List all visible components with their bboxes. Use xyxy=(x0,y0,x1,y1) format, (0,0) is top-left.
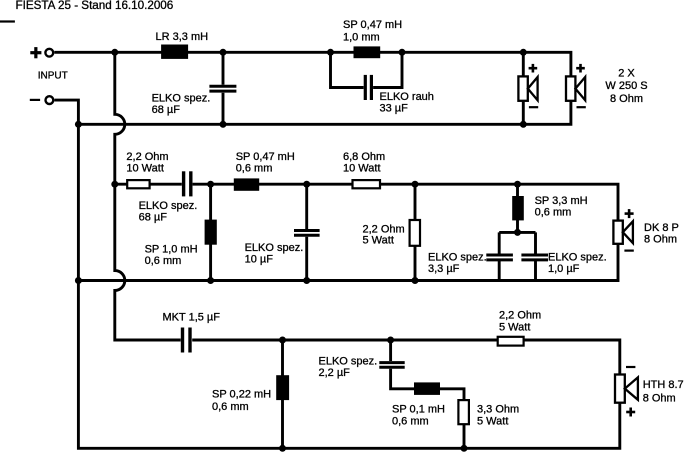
svg-text:8 Ohm: 8 Ohm xyxy=(644,234,677,246)
node: tweeter wire junctions xyxy=(279,337,394,344)
node: bottom rail junctions xyxy=(279,445,468,452)
node: top wire junctions xyxy=(111,49,527,56)
wire: leg of 68 uF elko from top wire to return rail xyxy=(222,52,225,124)
svg-text:68 µF: 68 µF xyxy=(152,104,181,116)
svg-text:ELKO spez.: ELKO spez. xyxy=(548,251,607,263)
svg-text:ELKO spez.: ELKO spez. xyxy=(152,92,211,104)
node: midrange return rail junctions xyxy=(75,277,419,284)
svg-text:10 Watt: 10 Watt xyxy=(343,163,381,175)
svg-text:1,0 mm: 1,0 mm xyxy=(343,32,380,44)
label 6,8 Ohm 10 Watt xyxy=(343,151,385,175)
label ELKO spez. 10 uF xyxy=(245,242,304,266)
svg-text:2,2 µF: 2,2 µF xyxy=(319,367,351,379)
capacitor ELKO rauh 33 uF xyxy=(365,75,371,100)
svg-text:HTH 8.7: HTH 8.7 xyxy=(643,379,684,391)
svg-text:FIESTA 25 - Stand 16.10.2006: FIESTA 25 - Stand 16.10.2006 xyxy=(16,0,174,12)
minus mark HTH xyxy=(626,366,635,368)
label SP 0,47 mH 1,0 mm xyxy=(343,19,402,44)
capacitor ELKO spez. 3,3 uF xyxy=(486,255,513,260)
plus mark DK 8 P xyxy=(625,209,634,218)
speaker W 250 S #1 xyxy=(518,76,537,100)
svg-text:ELKO spez.: ELKO spez. xyxy=(428,251,487,263)
label DK 8 P 8 Ohm xyxy=(644,222,679,246)
wire: legs of first woofer xyxy=(522,52,525,124)
label 2,2 Ohm 5 Watt midrange xyxy=(363,223,405,246)
wire: leg of SP 3,3 mH branch xyxy=(516,184,519,232)
svg-text:ELKO rauh: ELKO rauh xyxy=(380,91,434,103)
svg-text:5 Watt: 5 Watt xyxy=(477,415,508,427)
label 3,3 Ohm 5 Watt xyxy=(477,403,519,427)
label ELKO spez. 3,3 uF xyxy=(428,251,487,275)
label ELKO spez. 1,0 uF xyxy=(548,251,607,275)
label ELKO spez. 2,2 uF xyxy=(319,355,378,379)
svg-text:SP 0,22 mH: SP 0,22 mH xyxy=(212,388,271,400)
svg-text:6,8 Ohm: 6,8 Ohm xyxy=(343,151,385,163)
label SP 0,22 mH 0,6 mm xyxy=(212,388,271,413)
label ELKO rauh 33 uF xyxy=(380,91,434,115)
capacitor ELKO spez. 68 uF (midrange series) xyxy=(184,171,191,196)
svg-text:0,6 mm: 0,6 mm xyxy=(392,415,429,427)
svg-text:INPUT: INPUT xyxy=(38,71,68,82)
inductor SP 0,47 mH 1,0 mm xyxy=(354,46,381,58)
svg-text:SP 0,1 mH: SP 0,1 mH xyxy=(392,403,445,415)
svg-text:0,6 mm: 0,6 mm xyxy=(236,163,273,175)
speaker DK 8 P xyxy=(613,221,633,244)
svg-text:ELKO spez.: ELKO spez. xyxy=(319,355,378,367)
wire: leg of 2,2 Ohm 5 Watt shunt (midrange) xyxy=(414,184,417,280)
label SP 0,47 mH 0,6 mm xyxy=(236,151,295,175)
resistor 2,2 Ohm 5 Watt (midrange shunt) xyxy=(410,220,420,246)
svg-text:33 µF: 33 µF xyxy=(380,103,409,115)
svg-text:2 X: 2 X xyxy=(618,67,635,79)
margin tick mark xyxy=(0,20,15,22)
svg-text:SP 0,47 mH: SP 0,47 mH xyxy=(343,19,402,31)
resistor 2,2 Ohm 10 Watt xyxy=(127,180,149,188)
label SP 3,3 mH 0,6 mm xyxy=(535,195,588,218)
wire: minus feed down left side and bottom rail to HTH xyxy=(55,100,620,448)
capacitor ELKO spez. 68 uF (woofer branch) xyxy=(209,86,236,91)
svg-text:0,6 mm: 0,6 mm xyxy=(535,206,572,218)
svg-text:ELKO spez.: ELKO spez. xyxy=(245,242,304,254)
svg-text:0,6 mm: 0,6 mm xyxy=(212,401,249,413)
node: woofer return rail junctions xyxy=(75,121,527,128)
svg-text:10 µF: 10 µF xyxy=(245,254,274,266)
svg-text:1,0 µF: 1,0 µF xyxy=(548,263,580,275)
inductor SP 1,0 mH 0,6 mm xyxy=(205,220,217,245)
wire: ELKO 2,2 uF and RL chain to bottom rail xyxy=(391,340,464,448)
wire: leg of ELKO 10 uF shunt xyxy=(305,184,308,280)
node: SP 3,3 mH to elko pair junction xyxy=(514,229,521,236)
svg-text:3,3 µF: 3,3 µF xyxy=(428,263,460,275)
capacitor ELKO spez. 1,0 uF xyxy=(521,255,548,260)
label HTH 8.7 8 Ohm xyxy=(643,379,684,404)
label SP 1,0 mH 0,6 mm xyxy=(145,244,198,268)
plus mark speaker 2 xyxy=(576,64,585,73)
speaker HTH 8.7 xyxy=(615,375,638,403)
speaker W 250 S #2 xyxy=(566,76,585,100)
svg-text:2,2 Ohm: 2,2 Ohm xyxy=(126,151,168,163)
wire: leg of SP 0,22 mH shunt xyxy=(281,340,284,448)
svg-text:ELKO spez.: ELKO spez. xyxy=(139,200,198,212)
wire: woofer section return rail xyxy=(78,101,571,125)
svg-text:LR 3,3 mH: LR 3,3 mH xyxy=(156,31,209,43)
wire: parallel elko pair frame xyxy=(499,232,535,280)
svg-text:8 Ohm: 8 Ohm xyxy=(610,93,643,105)
plus mark speaker 1 xyxy=(529,64,538,73)
capacitor MKT 1,5 uF xyxy=(183,328,191,353)
svg-text:SP 0,47 mH: SP 0,47 mH xyxy=(236,151,295,163)
resistor 6,8 Ohm 10 Watt xyxy=(353,180,381,188)
svg-text:DK 8 P: DK 8 P xyxy=(644,222,679,234)
wire: midrange return rail xyxy=(78,244,618,281)
svg-text:MKT 1,5 µF: MKT 1,5 µF xyxy=(163,312,221,324)
svg-text:3,3 Ohm: 3,3 Ohm xyxy=(477,403,519,415)
svg-text:8 Ohm: 8 Ohm xyxy=(643,392,676,404)
inductor LR 3,3 mH xyxy=(161,45,188,59)
label 2 X W 250 S 8 Ohm xyxy=(605,67,647,104)
input plus terminal xyxy=(30,47,53,58)
wire: leg of SP 1,0 mH shunt xyxy=(209,184,212,280)
svg-text:2,2 Ohm: 2,2 Ohm xyxy=(499,309,541,321)
svg-text:5 Watt: 5 Watt xyxy=(499,322,530,334)
svg-text:0,6 mm: 0,6 mm xyxy=(145,255,182,267)
capacitor ELKO spez. 2,2 uF xyxy=(379,363,404,368)
inductor SP 3,3 mH 0,6 mm xyxy=(512,196,524,220)
label 2,2 Ohm 5 Watt tweeter xyxy=(499,309,541,333)
svg-text:SP 3,3 mH: SP 3,3 mH xyxy=(535,195,588,207)
wire: plus feed vertical with two crossover hops, then tweeter branch wire to HTH xyxy=(115,52,620,374)
plus mark HTH xyxy=(626,408,635,417)
svg-text:10 Watt: 10 Watt xyxy=(126,163,163,175)
label ELKO spez. 68 uF midrange xyxy=(139,200,198,223)
svg-text:W 250 S: W 250 S xyxy=(605,80,647,92)
wire: parallel LC loop legs (woofer branch) xyxy=(331,52,403,87)
minus mark speaker 1 xyxy=(529,106,538,108)
input minus terminal xyxy=(30,96,54,104)
minus mark speaker 2 xyxy=(577,106,586,108)
inductor SP 0,22 mH 0,6 mm xyxy=(276,375,289,400)
svg-text:5 Watt: 5 Watt xyxy=(363,234,394,246)
capacitor ELKO spez. 10 uF xyxy=(294,231,320,236)
label SP 0,1 mH 0,6 mm xyxy=(392,403,445,427)
svg-text:68 µF: 68 µF xyxy=(139,211,168,223)
label ELKO spez. 68 uF xyxy=(152,92,211,116)
node: midrange wire junctions xyxy=(111,181,521,188)
resistor 3,3 Ohm 5 Watt xyxy=(458,400,469,424)
minus mark DK 8 P xyxy=(624,250,633,252)
resistor 2,2 Ohm 5 Watt (tweeter series) xyxy=(498,337,524,346)
wire: top rail from plus input to right end with corner down to second woofer xyxy=(54,52,571,76)
inductor SP 0,1 mH 0,6 mm xyxy=(414,382,440,395)
svg-text:SP 1,0 mH: SP 1,0 mH xyxy=(145,244,198,256)
label 2,2 Ohm 10 Watt xyxy=(126,151,168,175)
inductor SP 0,47 mH 0,6 mm (midrange series) xyxy=(234,178,259,190)
wire: midrange branch wire xyxy=(115,184,618,220)
